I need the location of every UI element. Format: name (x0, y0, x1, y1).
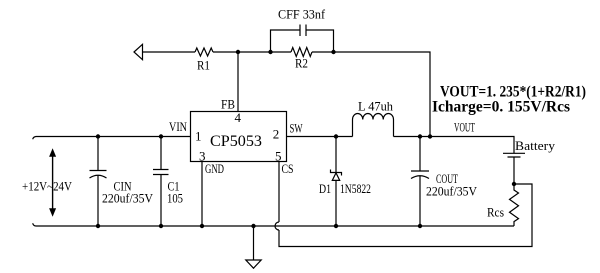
svg-text:CFF 33nf: CFF 33nf (278, 8, 326, 22)
svg-text:Rcs: Rcs (487, 206, 504, 220)
svg-text:GND: GND (205, 162, 224, 176)
svg-text:1N5822: 1N5822 (340, 182, 371, 196)
svg-text:105: 105 (167, 192, 183, 206)
svg-text:Icharge=0. 155V/Rcs: Icharge=0. 155V/Rcs (432, 99, 570, 116)
svg-text:220uf/35V: 220uf/35V (426, 185, 477, 199)
svg-text:VIN: VIN (169, 120, 187, 134)
svg-text:R2: R2 (295, 57, 308, 71)
svg-text:4: 4 (235, 110, 242, 125)
svg-text:2: 2 (273, 126, 280, 141)
svg-text:CS: CS (282, 162, 294, 176)
svg-text:SW: SW (290, 122, 303, 136)
svg-text:+12V~24V: +12V~24V (22, 180, 72, 194)
svg-text:CP5053: CP5053 (210, 133, 262, 150)
svg-text:D1: D1 (319, 182, 331, 196)
svg-text:VOUT: VOUT (454, 120, 475, 134)
svg-text:3: 3 (199, 148, 206, 163)
svg-text:Battery: Battery (515, 139, 556, 153)
svg-text:L 47uh: L 47uh (358, 100, 394, 114)
svg-text:220uf/35V: 220uf/35V (102, 192, 153, 206)
svg-text:R1: R1 (197, 59, 210, 73)
svg-text:FB: FB (221, 97, 235, 111)
svg-text:5: 5 (275, 148, 282, 163)
svg-text:1: 1 (195, 128, 202, 143)
